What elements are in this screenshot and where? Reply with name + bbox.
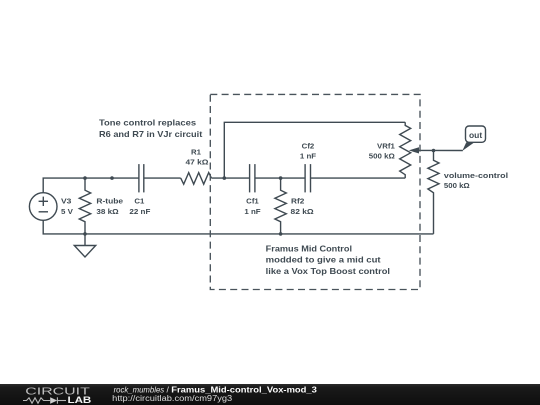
svg-text:volume-control: volume-control [444, 173, 508, 180]
voltage source V3 [29, 193, 57, 221]
logo diode [50, 397, 57, 404]
node B [279, 176, 283, 180]
wiper wire VRf1 [418, 149, 463, 151]
svg-text:V3: V3 [61, 199, 72, 206]
svg-text:VRf1: VRf1 [377, 143, 395, 150]
svg-text:R-tube: R-tube [96, 199, 123, 206]
capacitor Cf2 [304, 164, 306, 192]
node dots [83, 149, 435, 236]
wiper arrow VRf1 [409, 147, 419, 153]
resistor Rf2 [275, 178, 286, 234]
svg-text:modded to give a mid cut: modded to give a mid cut [266, 256, 381, 265]
svg-text:Framus Mid Control: Framus Mid Control [266, 244, 352, 253]
svg-text:R1: R1 [191, 149, 201, 156]
node at R-tube top [83, 176, 87, 180]
resistor volume-control [428, 151, 439, 234]
svg-text:Tone control replaces: Tone control replaces [99, 118, 197, 127]
node ground [83, 232, 87, 236]
svg-text:1 nF: 1 nF [300, 153, 317, 160]
svg-text:5 V: 5 V [61, 209, 73, 216]
svg-text:Cf2: Cf2 [302, 143, 315, 150]
svg-text:R6 and R7 in VJr circuit: R6 and R7 in VJr circuit [99, 130, 203, 139]
wire R1 to Cf1 [211, 177, 249, 179]
svg-text:C1: C1 [134, 199, 144, 206]
svg-text:like a Vox Top Boost control: like a Vox Top Boost control [266, 267, 390, 276]
svg-text:38 kΩ: 38 kΩ [96, 209, 119, 216]
node Rf2 bottom [279, 232, 283, 236]
capacitor Cf1 [249, 164, 251, 192]
svg-text:82 kΩ: 82 kΩ [291, 209, 315, 216]
labels [61, 131, 508, 216]
potentiometer VRf1 zigzag [400, 122, 411, 178]
svg-text:22 nF: 22 nF [129, 209, 151, 216]
svg-text:out: out [469, 131, 483, 140]
svg-text:47 kΩ: 47 kΩ [186, 159, 209, 166]
ground [84, 234, 86, 246]
wire Cf1 to Cf2 [255, 177, 305, 179]
out flag tail [462, 142, 474, 151]
svg-text:500 kΩ: 500 kΩ [369, 153, 395, 160]
node wiper [432, 149, 436, 153]
annotation framus [266, 244, 390, 276]
wire bottom rail [43, 220, 433, 234]
svg-text:LAB: LAB [68, 395, 92, 405]
svg-text:Cf1: Cf1 [246, 199, 259, 206]
svg-text:Rf2: Rf2 [291, 199, 304, 206]
wire main rail left [43, 178, 139, 193]
wire top branch [224, 122, 405, 178]
svg-text:http://circuitlab.com/cm97yg3: http://circuitlab.com/cm97yg3 [112, 394, 233, 403]
svg-text:1 nF: 1 nF [244, 209, 261, 216]
footer bar [0, 384, 540, 405]
resistor R-tube [79, 178, 90, 234]
annotation tone control [99, 118, 203, 139]
node A [223, 176, 227, 180]
node joint [110, 176, 114, 180]
wire C1 to R1 [144, 177, 181, 179]
svg-text:500 kΩ: 500 kΩ [444, 183, 470, 190]
capacitor C1 [138, 164, 140, 192]
logo zigzag wire [23, 397, 66, 403]
dashed box [210, 94, 420, 289]
out flag box [466, 126, 486, 142]
wire Cf2 to VRf1 bottom [311, 177, 406, 179]
resistor R1 [181, 173, 212, 185]
